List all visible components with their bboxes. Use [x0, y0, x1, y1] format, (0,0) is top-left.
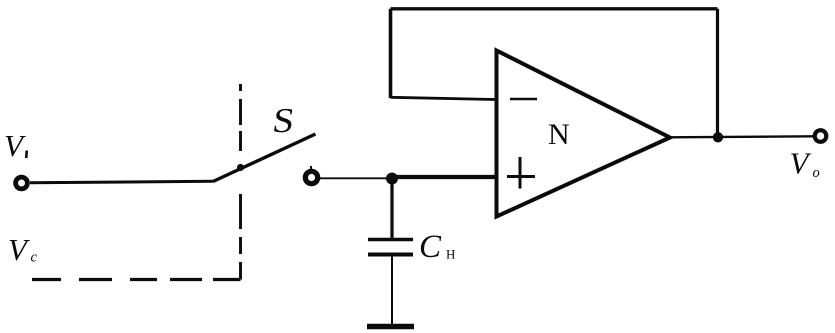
svg-text:C: C	[419, 229, 442, 265]
wire (feedback: top horizontal)	[391, 7, 718, 10]
op-amp N plus input mark	[507, 157, 535, 189]
wire (op-amp output)	[669, 136, 813, 137]
svg-text:S: S	[270, 101, 297, 140]
svg-text:N: N	[548, 118, 570, 151]
op-amp N (triangle)	[497, 51, 671, 217]
capacitor CH	[368, 238, 413, 242]
switch S (arm)	[213, 134, 316, 182]
wire (feedback: left vertical)	[389, 9, 393, 98]
terminal Vo (output)	[815, 130, 827, 142]
ground	[367, 324, 414, 329]
wire (node A down to capacitor)	[390, 178, 393, 238]
svg-text:H: H	[446, 247, 455, 262]
terminal Vs (input)	[16, 177, 28, 189]
wire (switch terminal to node A)	[320, 177, 392, 179]
wire (node A to op-amp + input)	[392, 175, 495, 179]
svg-text:c: c	[31, 250, 38, 266]
node B (output junction)	[713, 132, 723, 142]
svg-text:o: o	[813, 165, 820, 181]
control line Vc (dashed vertical)	[239, 84, 242, 280]
wire (feedback: into inverting input)	[391, 97, 496, 99]
svg-text:V: V	[8, 232, 30, 267]
terminal (switch output)	[305, 171, 317, 183]
control line Vc (dashed horizontal)	[32, 278, 241, 281]
svg-text:V: V	[4, 128, 26, 163]
wire (feedback: right vertical down to output node)	[716, 9, 719, 137]
node A (junction)	[386, 173, 398, 185]
svg-text:V: V	[790, 145, 812, 180]
wire (capacitor to ground)	[391, 257, 393, 325]
wire (input to switch)	[30, 181, 213, 183]
op-amp N minus input mark	[510, 98, 537, 101]
